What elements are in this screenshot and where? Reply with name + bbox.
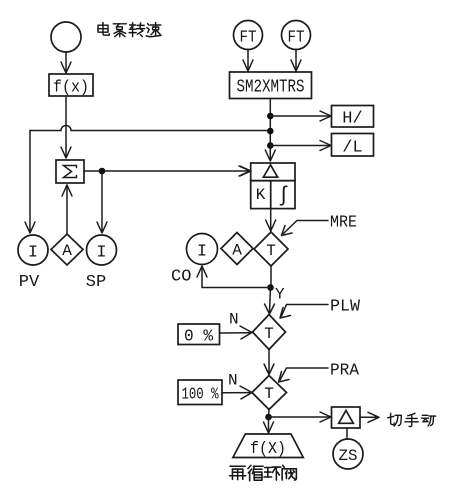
svg-text:A: A xyxy=(62,242,72,260)
svg-text:100 %: 100 % xyxy=(182,386,220,405)
indicator PV circle I xyxy=(18,235,48,265)
diamond T1 xyxy=(254,232,288,266)
transmitter FT2 xyxy=(282,21,311,50)
wire FT1 down xyxy=(247,50,249,70)
summer sigma xyxy=(56,160,84,183)
svg-text:ZS: ZS xyxy=(339,447,358,465)
wire to H limit xyxy=(270,115,329,117)
wire FT2 down xyxy=(295,50,297,70)
source circle (pump speed) xyxy=(51,22,81,52)
junction dot PV feed xyxy=(267,128,274,135)
indicator CO circle I xyxy=(187,234,218,265)
junction dot out xyxy=(265,414,272,421)
svg-text:MRE: MRE xyxy=(330,214,357,233)
block H/ xyxy=(332,106,374,129)
wire T3 down to junction xyxy=(268,410,271,418)
label xun (circulate) xyxy=(248,465,263,480)
svg-text:f(x): f(x) xyxy=(53,79,89,98)
block 0% xyxy=(178,324,220,347)
svg-text:I: I xyxy=(197,243,207,262)
wire T1 down to Y junction xyxy=(270,266,272,288)
label fa (valve) xyxy=(282,465,296,480)
indicator SP circle I xyxy=(87,235,117,265)
svg-text:T: T xyxy=(264,325,274,343)
transmitter FT1 xyxy=(234,21,263,50)
junction dot L xyxy=(267,142,274,149)
leader MRE xyxy=(282,214,358,236)
svg-text:T: T xyxy=(266,242,276,260)
svg-text:N: N xyxy=(228,372,238,390)
arrow out to manual label xyxy=(360,416,377,418)
diamond A2 xyxy=(221,233,253,265)
wire down to SP xyxy=(101,171,103,232)
wire to ZS xyxy=(346,428,348,439)
svg-text:CO: CO xyxy=(171,268,191,287)
svg-text:K: K xyxy=(256,186,266,204)
svg-text:f(X): f(X) xyxy=(250,440,286,459)
wire horizontal PV feed with hop xyxy=(30,126,267,131)
diamond T2 xyxy=(253,315,286,350)
wire f(x) to sigma xyxy=(65,96,67,157)
wire 100% to T3 with N xyxy=(222,392,250,394)
wire controller down to T1 xyxy=(270,209,272,229)
diamond A1 xyxy=(51,234,83,265)
wire circle to f(x) xyxy=(65,52,67,71)
block /L xyxy=(332,134,374,158)
label zai (re-) xyxy=(230,466,246,479)
svg-text:PLW: PLW xyxy=(330,298,361,317)
wire 0% to T2 with N xyxy=(220,332,251,334)
label dian (electric) xyxy=(98,23,109,36)
wire junction down to valve xyxy=(268,417,270,431)
label dong (manual/move) xyxy=(422,415,436,426)
label qie (cut) xyxy=(388,413,402,426)
svg-text:T: T xyxy=(264,385,274,403)
wire T2 down to T3 xyxy=(268,350,270,373)
svg-text:∫: ∫ xyxy=(277,185,290,208)
block 100% xyxy=(178,380,222,405)
wire Y down to T2 xyxy=(270,288,271,313)
svg-text:N: N xyxy=(229,311,239,329)
switch ZS circle xyxy=(333,439,363,469)
wire Y to CO xyxy=(202,268,271,288)
label shou (hand) xyxy=(405,413,418,426)
svg-text:H/: H/ xyxy=(342,110,362,129)
leader PRA xyxy=(279,362,360,383)
svg-text:SM2XMTRS: SM2XMTRS xyxy=(237,78,305,98)
label huan (loop) xyxy=(264,467,281,480)
junction dot H xyxy=(267,113,274,120)
svg-text:FT: FT xyxy=(288,29,305,48)
junction dot Y xyxy=(267,284,274,291)
svg-text:I: I xyxy=(96,244,106,263)
wire down to PV xyxy=(29,131,31,233)
wire A1 to sigma bottom xyxy=(66,185,68,234)
label zhuan (turn) xyxy=(129,23,144,37)
valve trapezoid f(X) xyxy=(233,434,303,459)
block SM2XMTRS xyxy=(230,72,312,99)
svg-text:SP: SP xyxy=(86,273,106,292)
svg-text:I: I xyxy=(28,244,38,263)
wire sigma output right xyxy=(84,170,248,172)
wire SM2XMTRS down to delta xyxy=(269,99,271,160)
svg-text:FT: FT xyxy=(240,29,257,48)
wire to L limit xyxy=(270,145,329,147)
label beng (pump) xyxy=(113,24,126,37)
svg-text:0 %: 0 % xyxy=(184,328,214,347)
controller block delta / K integral xyxy=(251,163,295,209)
svg-text:A: A xyxy=(232,242,242,260)
svg-text:PRA: PRA xyxy=(330,362,360,381)
junction dot SP branch xyxy=(99,168,106,175)
label su (speed) xyxy=(146,23,161,37)
svg-text:/L: /L xyxy=(342,139,362,158)
block manual switch triangle xyxy=(332,407,361,428)
arrow into delta left xyxy=(240,166,251,176)
svg-text:Y: Y xyxy=(275,286,285,304)
leader PLW xyxy=(280,298,361,319)
svg-text:PV: PV xyxy=(19,273,40,292)
function block f(x) xyxy=(49,74,93,98)
wire junction right to manual switch xyxy=(269,416,330,418)
diamond T3 xyxy=(252,376,287,410)
